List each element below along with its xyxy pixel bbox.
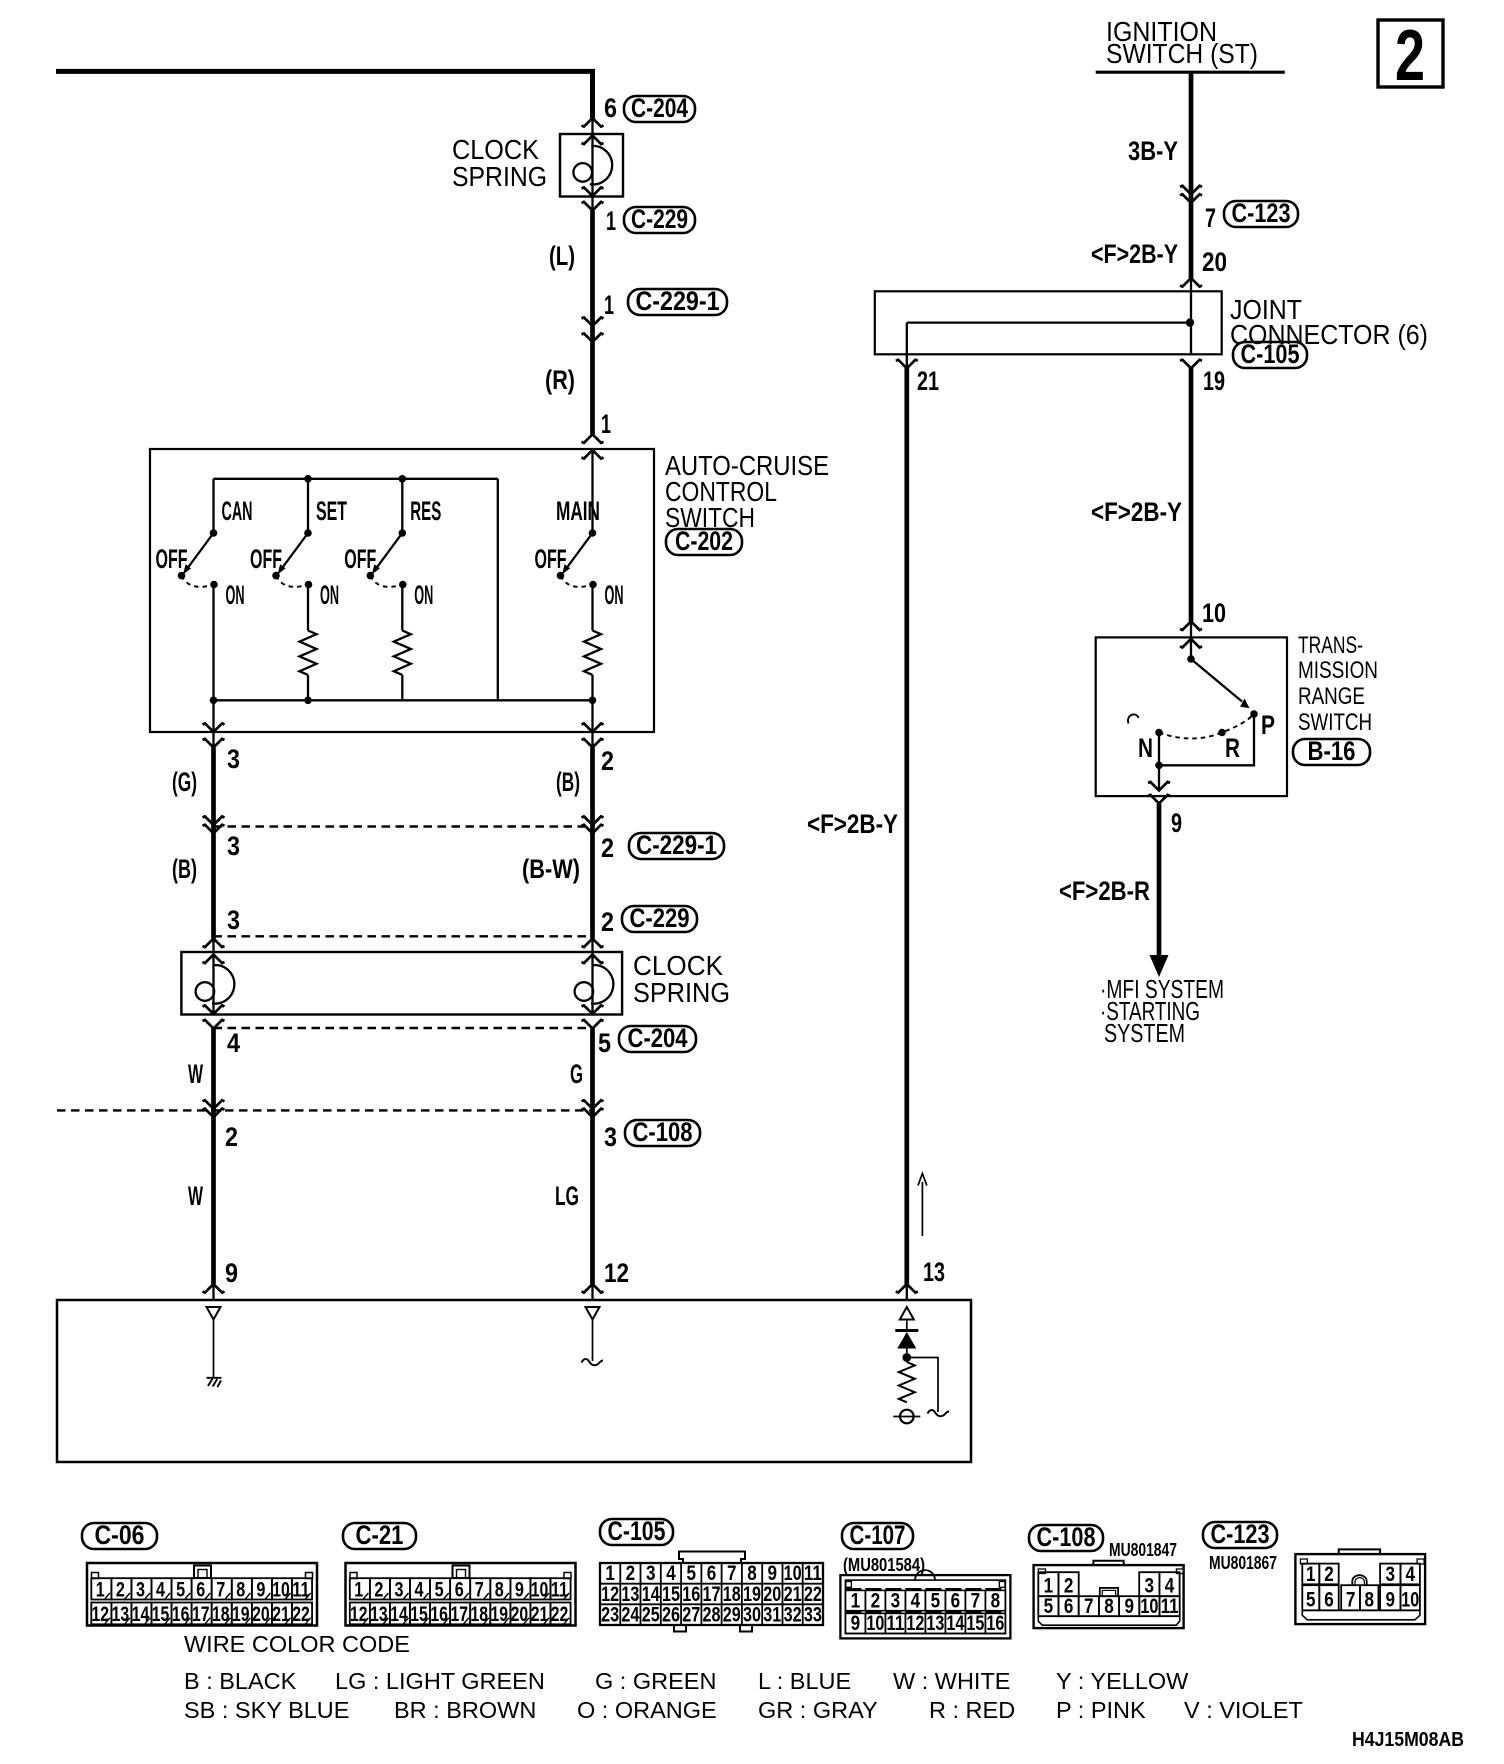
wire: ignition ST feed: [1189, 72, 1194, 278]
svg-text:10: 10: [272, 1578, 290, 1601]
wire: branch 21 down to pin 13: [904, 368, 909, 1284]
svg-text:<F>2B-Y: <F>2B-Y: [1091, 497, 1182, 527]
dashed line at C-108: [57, 1109, 593, 1111]
svg-text:W: W: [188, 1059, 203, 1089]
svg-text:8: 8: [991, 1589, 1001, 1612]
wire: P contact down and across: [1159, 714, 1254, 765]
svg-text:2: 2: [1395, 16, 1425, 96]
svg-text:7: 7: [1205, 203, 1216, 233]
wire: internal lead pin 12: [592, 1320, 594, 1362]
wire: joint connector left branch: [906, 323, 908, 369]
auto-cruise control switch box C-202: [150, 449, 654, 732]
svg-text:C-204: C-204: [628, 1023, 688, 1053]
svg-text:17: 17: [703, 1583, 721, 1606]
mechanical link squiggle: [1128, 714, 1138, 723]
wire below SET contact: [307, 585, 309, 631]
wire: pin3 branch down to junction block: [211, 748, 216, 939]
svg-text:3: 3: [395, 1578, 404, 1601]
switch exit forks pin 3 / pin 2: [203, 723, 225, 732]
dashed line at C-204: [214, 1027, 593, 1029]
wire: output to MFI/starting system with arrow: [1157, 804, 1162, 958]
svg-text:<F>2B-Y: <F>2B-Y: [807, 809, 898, 839]
svg-text:C-123: C-123: [1211, 1519, 1270, 1549]
svg-text:C-229-1: C-229-1: [636, 286, 720, 316]
svg-text:22: 22: [804, 1583, 822, 1606]
svg-text:2: 2: [374, 1578, 383, 1601]
output triangle pin 13: [900, 1307, 914, 1320]
svg-text:10: 10: [1140, 1595, 1158, 1618]
svg-text:20: 20: [763, 1583, 781, 1606]
svg-text:13: 13: [923, 1257, 945, 1287]
connector C-123 pinout: [1339, 1549, 1380, 1554]
wire below CAN contact: [212, 585, 214, 701]
splice forks at C-229-1: [203, 816, 225, 825]
connector crossing pin 6 C-204 forks: [582, 118, 604, 127]
svg-text:2: 2: [1324, 1563, 1334, 1586]
svg-text:(G): (G): [172, 767, 197, 797]
svg-text:SPRING: SPRING: [452, 161, 547, 192]
svg-text:C-229-1: C-229-1: [636, 830, 717, 860]
svg-text:16: 16: [172, 1603, 190, 1626]
svg-text:9: 9: [515, 1578, 524, 1601]
svg-text:4: 4: [415, 1578, 424, 1601]
svg-text:3: 3: [136, 1578, 145, 1601]
wire: branch to internal ground: [907, 1358, 938, 1413]
clock spring (lower) box: [181, 952, 622, 1015]
range switch lever: [1191, 659, 1242, 702]
svg-text:14: 14: [946, 1612, 964, 1635]
internal curl (branch): [928, 1410, 950, 1416]
switch section CAN: [212, 479, 214, 533]
svg-text:25: 25: [642, 1604, 660, 1627]
wire: internal bottom bus: [214, 699, 593, 701]
svg-text:ON: ON: [226, 580, 245, 610]
svg-text:B : BLACK: B : BLACK: [184, 1668, 297, 1694]
connector B-16 label: [1293, 739, 1370, 765]
svg-text:1: 1: [601, 409, 611, 439]
svg-text:9: 9: [1386, 1589, 1396, 1612]
svg-text:23: 23: [601, 1604, 619, 1627]
svg-text:19: 19: [232, 1603, 250, 1626]
svg-text:1: 1: [96, 1578, 105, 1601]
clock spring (upper) box: [560, 134, 623, 197]
svg-text:3: 3: [646, 1562, 656, 1585]
node: position R contact: [1218, 729, 1226, 737]
clock spring (lower) left spiral: [196, 965, 235, 1004]
svg-text:SET: SET: [316, 496, 347, 526]
svg-text:W : WHITE: W : WHITE: [893, 1668, 1010, 1694]
svg-text:11: 11: [1161, 1595, 1179, 1618]
svg-text:11: 11: [886, 1612, 904, 1635]
svg-text:RES: RES: [410, 496, 441, 526]
svg-text:10: 10: [1202, 598, 1226, 628]
wire: joint connector internal bus: [907, 321, 1190, 323]
wire end fork pin 13: [896, 1284, 918, 1293]
svg-text:C-108: C-108: [633, 1117, 693, 1147]
svg-text:10: 10: [866, 1612, 884, 1635]
svg-text:SWITCH: SWITCH: [1298, 709, 1372, 736]
svg-text:2: 2: [225, 1122, 238, 1152]
svg-text:13: 13: [112, 1603, 130, 1626]
svg-text:6: 6: [951, 1589, 961, 1612]
switch section SET: [307, 479, 309, 533]
clock spring (lower) right spiral: [575, 965, 614, 1004]
node: joint connector tap: [1186, 318, 1194, 326]
dashed line at C-229: [214, 935, 593, 937]
svg-text:GR : GRAY: GR : GRAY: [758, 1697, 878, 1723]
svg-text:9: 9: [225, 1258, 238, 1288]
svg-text:32: 32: [784, 1604, 802, 1627]
svg-text:ON: ON: [320, 580, 339, 610]
svg-text:14: 14: [132, 1603, 150, 1626]
svg-text:WIRE COLOR CODE: WIRE COLOR CODE: [184, 1631, 410, 1657]
resistor under RES: [394, 631, 411, 675]
input triangle pin 12: [586, 1307, 600, 1320]
svg-text:4: 4: [227, 1028, 240, 1058]
ignition switch underline: [1096, 71, 1285, 74]
svg-text:14: 14: [642, 1583, 660, 1606]
svg-text:8: 8: [747, 1562, 757, 1585]
svg-text:G: G: [570, 1059, 583, 1089]
svg-text:6: 6: [1324, 1589, 1334, 1612]
connector crossing C-123 pin 7 forks: [1180, 186, 1202, 195]
svg-text:C-105: C-105: [1241, 339, 1300, 369]
svg-text:<F>2B-Y: <F>2B-Y: [1091, 239, 1178, 269]
svg-text:19: 19: [743, 1583, 761, 1606]
svg-text:13: 13: [621, 1583, 639, 1606]
svg-text:C-202: C-202: [675, 526, 733, 556]
svg-text:SYSTEM: SYSTEM: [1104, 1018, 1185, 1048]
node: position P contact: [1250, 710, 1258, 718]
svg-text:5: 5: [435, 1578, 444, 1601]
svg-text:5: 5: [176, 1578, 185, 1601]
svg-text:C-229: C-229: [630, 903, 690, 933]
svg-text:7: 7: [971, 1589, 981, 1612]
svg-text:10: 10: [784, 1562, 802, 1585]
joint connector (6) box C-105: [875, 291, 1222, 354]
svg-text:1: 1: [1306, 1563, 1316, 1586]
svg-text:19: 19: [491, 1603, 509, 1626]
svg-text:28: 28: [703, 1604, 721, 1627]
svg-text:3: 3: [227, 744, 240, 774]
svg-text:V : VIOLET: V : VIOLET: [1184, 1697, 1303, 1723]
svg-text:R: R: [1225, 733, 1240, 763]
connector C-06 pinout: [87, 1563, 317, 1626]
connector C-229-1 label (second): [629, 833, 724, 859]
svg-text:27: 27: [682, 1604, 700, 1627]
svg-text:SPRING: SPRING: [633, 977, 730, 1008]
transmission range switch entry forks: [1180, 621, 1202, 630]
clock spring (upper) spiral: [573, 146, 612, 185]
svg-text:9: 9: [1171, 808, 1182, 838]
svg-text:5: 5: [1306, 1589, 1316, 1612]
svg-text:15: 15: [662, 1583, 680, 1606]
svg-text:18: 18: [471, 1603, 489, 1626]
svg-text:P : PINK: P : PINK: [1056, 1697, 1146, 1723]
svg-text:MU801867: MU801867: [1209, 1553, 1277, 1573]
svg-text:7: 7: [216, 1578, 225, 1601]
wire end forks at ECU: [203, 1284, 225, 1293]
terminal circle: [900, 1410, 914, 1424]
clock spring (lower) entry forks: [203, 939, 225, 948]
svg-text:6: 6: [707, 1562, 717, 1585]
svg-text:16: 16: [430, 1603, 448, 1626]
switch entry forks: [582, 434, 604, 443]
chassis ground hatch: [207, 1378, 222, 1387]
svg-text:10: 10: [1401, 1589, 1419, 1612]
connector C-21 pinout: [346, 1563, 576, 1626]
splice forks at C-108: [203, 1100, 225, 1109]
clock spring (upper) exit forks pin 1: [582, 187, 604, 196]
connector C-107 pinout: [840, 1575, 1010, 1638]
range switch exit forks pin 9: [1148, 782, 1170, 791]
wire below RES contact: [401, 585, 403, 631]
connector C-21 label: [343, 1523, 416, 1549]
svg-text:29: 29: [723, 1604, 741, 1627]
connector C-123 label (bottom): [1203, 1522, 1277, 1548]
svg-text:33: 33: [804, 1604, 822, 1627]
svg-text:30: 30: [743, 1604, 761, 1627]
internal curl pin 12: [582, 1359, 604, 1365]
svg-text:9: 9: [768, 1562, 778, 1585]
flow direction arrow beside wire 13: [921, 1182, 923, 1236]
svg-text:12: 12: [350, 1603, 368, 1626]
svg-text:24: 24: [621, 1604, 639, 1627]
svg-text:11: 11: [551, 1578, 569, 1601]
svg-text:5: 5: [686, 1562, 696, 1585]
svg-text:26: 26: [662, 1604, 680, 1627]
connector C-229 label: [624, 207, 695, 233]
svg-text:20: 20: [511, 1603, 529, 1626]
svg-text:C-123: C-123: [1232, 198, 1291, 228]
node: bottom bus dots: [210, 697, 218, 705]
svg-text:<F>2B-R: <F>2B-R: [1059, 876, 1150, 906]
connector crossing C-229-1 forks: [582, 317, 604, 326]
svg-text:16: 16: [986, 1612, 1004, 1635]
svg-text:3: 3: [227, 905, 240, 935]
switch section MAIN: [591, 450, 593, 533]
svg-text:OFF: OFF: [344, 544, 376, 574]
svg-text:8: 8: [1364, 1589, 1374, 1612]
resistor under SET: [300, 631, 317, 675]
connector C-105 pinout: [679, 1552, 745, 1564]
svg-text:11: 11: [292, 1578, 310, 1601]
wire to junction: [906, 1349, 908, 1358]
input triangle pin 9: [207, 1307, 221, 1320]
svg-text:5: 5: [598, 1028, 611, 1058]
svg-text:C-06: C-06: [95, 1520, 145, 1550]
svg-text:MISSION: MISSION: [1298, 657, 1378, 684]
svg-text:12: 12: [601, 1583, 619, 1606]
node: diode-resistor junction: [902, 1353, 911, 1362]
svg-text:21: 21: [272, 1603, 290, 1626]
range switch throw dashed arc: [1159, 716, 1253, 739]
svg-text:Y : YELLOW: Y : YELLOW: [1056, 1668, 1189, 1694]
svg-text:OFF: OFF: [156, 544, 188, 574]
internal resistor: [899, 1362, 915, 1402]
node: position N contact: [1155, 729, 1163, 737]
wire: thin through clock spring: [591, 118, 593, 211]
svg-text:LG: LG: [555, 1181, 579, 1211]
svg-text:18: 18: [723, 1583, 741, 1606]
wire: N leg to box edge: [1158, 733, 1160, 791]
page number box 2: [1378, 20, 1443, 87]
svg-text:(MU801584): (MU801584): [843, 1555, 925, 1575]
svg-text:C-204: C-204: [631, 93, 688, 123]
svg-text:(B-W): (B-W): [522, 854, 580, 884]
wire below MAIN contact: [591, 585, 593, 631]
svg-text:TRANS-: TRANS-: [1298, 632, 1363, 659]
svg-text:7: 7: [727, 1562, 737, 1585]
svg-text:C-229: C-229: [631, 204, 688, 234]
svg-text:19: 19: [1203, 366, 1225, 396]
svg-text:O : ORANGE: O : ORANGE: [577, 1697, 717, 1723]
svg-text:31: 31: [763, 1604, 781, 1627]
wire: internal lead pin 9: [213, 1320, 215, 1378]
svg-text:8: 8: [236, 1578, 245, 1601]
svg-text:SWITCH (ST): SWITCH (ST): [1106, 38, 1258, 69]
switch section RES: [401, 479, 403, 533]
svg-text:2: 2: [871, 1589, 881, 1612]
svg-text:1: 1: [604, 290, 614, 320]
svg-text:2: 2: [116, 1578, 125, 1601]
svg-text:OFF: OFF: [535, 544, 567, 574]
svg-text:7: 7: [1346, 1589, 1356, 1612]
svg-text:3: 3: [1386, 1563, 1396, 1586]
wire: feed from previous page to clock spring pin 6: [56, 71, 593, 118]
svg-text:1: 1: [851, 1589, 861, 1612]
svg-text:OFF: OFF: [250, 544, 282, 574]
wire: clock spring to auto-cruise switch: [590, 211, 595, 435]
svg-text:18: 18: [212, 1603, 230, 1626]
svg-text:20: 20: [252, 1603, 270, 1626]
svg-text:ON: ON: [414, 580, 433, 610]
transmission range switch box B-16: [1096, 637, 1287, 796]
svg-text:3B-Y: 3B-Y: [1128, 136, 1178, 166]
svg-text:2: 2: [601, 746, 614, 776]
svg-text:22: 22: [292, 1603, 310, 1626]
svg-text:21: 21: [531, 1603, 549, 1626]
svg-text:4: 4: [156, 1578, 165, 1601]
connector C-229 label (second): [622, 906, 697, 932]
svg-text:P: P: [1261, 710, 1275, 740]
svg-text:22: 22: [551, 1603, 569, 1626]
svg-text:MAIN: MAIN: [556, 496, 600, 526]
svg-text:12: 12: [906, 1612, 924, 1635]
svg-text:15: 15: [152, 1603, 170, 1626]
svg-text:W: W: [188, 1181, 203, 1211]
svg-text:9: 9: [851, 1612, 861, 1635]
svg-text:3: 3: [891, 1589, 901, 1612]
joint connector entry fork pin 20: [1180, 278, 1202, 287]
svg-text:20: 20: [1202, 247, 1227, 277]
svg-text:9: 9: [1124, 1595, 1134, 1618]
svg-text:6: 6: [1064, 1595, 1074, 1618]
node: bus junction dots: [304, 475, 312, 483]
connector C-108 pinout: [1093, 1561, 1123, 1565]
svg-text:C-21: C-21: [356, 1520, 404, 1550]
svg-text:ON: ON: [605, 580, 624, 610]
connector C-202 label: [666, 529, 742, 555]
connector C-107 label: [842, 1523, 913, 1549]
svg-text:8: 8: [495, 1578, 504, 1601]
wire: to joint connector: [1190, 278, 1192, 354]
wire: pin2 branch down to junction block: [590, 748, 595, 939]
connector C-06 label: [82, 1523, 157, 1549]
svg-text:H4J15M08AB: H4J15M08AB: [1352, 1729, 1464, 1751]
svg-text:N: N: [1138, 733, 1153, 763]
svg-text:21: 21: [784, 1583, 802, 1606]
svg-text:LG : LIGHT GREEN: LG : LIGHT GREEN: [335, 1668, 545, 1694]
svg-text:13: 13: [370, 1603, 388, 1626]
svg-text:9: 9: [256, 1578, 265, 1601]
connector C-123 label: [1224, 201, 1298, 227]
connector C-108 label (bottom): [1029, 1525, 1103, 1551]
svg-text:6: 6: [196, 1578, 205, 1601]
svg-text:2: 2: [601, 833, 614, 863]
svg-text:21: 21: [917, 366, 939, 396]
svg-text:2: 2: [601, 907, 614, 937]
svg-text:BR : BROWN: BR : BROWN: [394, 1697, 536, 1723]
svg-text:MU801847: MU801847: [1109, 1540, 1177, 1560]
svg-text:17: 17: [192, 1603, 210, 1626]
svg-text:5: 5: [1044, 1595, 1054, 1618]
connector C-204 label: [624, 96, 695, 122]
svg-text:17: 17: [450, 1603, 468, 1626]
wire: internal top bus: [214, 478, 498, 480]
svg-text:10: 10: [531, 1578, 549, 1601]
svg-text:6: 6: [604, 93, 617, 123]
svg-text:6: 6: [455, 1578, 464, 1601]
joint connector exit forks pins 21 and 19: [896, 360, 918, 369]
wire: internal lead pin 13: [906, 1320, 908, 1330]
wire: bus drop to bottom bus: [497, 479, 499, 701]
connector C-105 label: [1233, 342, 1307, 368]
svg-text:L : BLUE: L : BLUE: [758, 1668, 851, 1694]
svg-text:4: 4: [911, 1589, 921, 1612]
svg-text:C-108: C-108: [1037, 1522, 1096, 1552]
svg-text:(B): (B): [172, 854, 197, 884]
node: junction at N leg: [1155, 762, 1163, 770]
svg-text:3: 3: [604, 1122, 617, 1152]
wire: exits to box edge: [212, 700, 214, 747]
svg-text:7: 7: [475, 1578, 484, 1601]
connector C-105 label (bottom): [600, 1519, 673, 1545]
svg-text:12: 12: [604, 1258, 629, 1288]
svg-text:7: 7: [1084, 1595, 1094, 1618]
wire: pin 19 down to transmission range switch: [1189, 368, 1194, 621]
svg-text:11: 11: [804, 1562, 822, 1585]
splice crossing C-229-1 dashed line: [214, 825, 593, 827]
connector C-229-1 label: [628, 289, 727, 315]
svg-text:C-105: C-105: [608, 1516, 666, 1546]
svg-text:RANGE: RANGE: [1298, 683, 1365, 710]
svg-text:SB : SKY BLUE: SB : SKY BLUE: [184, 1697, 349, 1723]
svg-text:2: 2: [626, 1562, 636, 1585]
ECU junction box: [57, 1300, 971, 1462]
svg-text:12: 12: [92, 1603, 110, 1626]
node: range switch pivot: [1187, 655, 1195, 663]
svg-text:15: 15: [966, 1612, 984, 1635]
svg-text:1: 1: [605, 1562, 615, 1585]
svg-text:CAN: CAN: [222, 496, 253, 526]
svg-text:3: 3: [227, 831, 240, 861]
svg-text:1: 1: [606, 206, 616, 236]
connector C-204 label (second): [619, 1026, 696, 1052]
resistor under MAIN: [584, 631, 601, 675]
svg-text:4: 4: [666, 1562, 676, 1585]
clock spring (lower) exit forks: [203, 1005, 225, 1014]
